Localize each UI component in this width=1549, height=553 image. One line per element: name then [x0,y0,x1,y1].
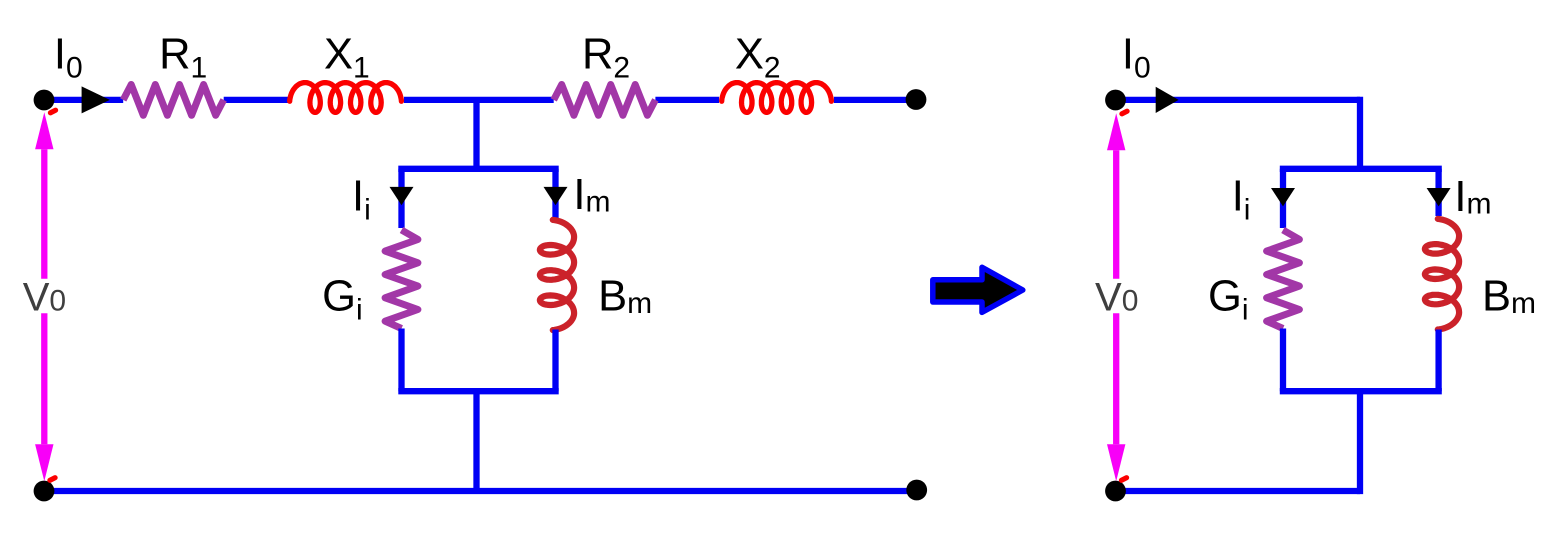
resistor R2 [554,85,656,116]
wire: junction drop [473,100,479,169]
voltage arrow V0 (right) [1113,150,1119,278]
wire: Gi branch bottom (right) [1280,329,1286,392]
node: bottom-right terminal [906,480,927,501]
wire [1116,97,1361,103]
wire: shunt top bar [398,166,558,172]
wire: Gi branch bottom [398,329,404,392]
implication arrow [933,267,1023,312]
wire: Bm branch top [552,169,558,218]
wire: right corner drop [1357,97,1363,169]
wire: shunt bottom bar (right) [1280,388,1442,394]
node: top-right terminal [906,89,927,110]
node: top terminal (right circuit) [1105,90,1126,111]
polarity mark (left bottom) [46,474,58,484]
inductor Bm (left) [540,220,574,330]
current arrow I0 (right) [1156,87,1179,113]
wire: shunt bottom bar [398,388,558,394]
wire: shunt top bar (right) [1280,166,1442,172]
voltage arrow V0 (left) [41,149,47,278]
node: bottom-left terminal [34,481,55,502]
wire [404,97,554,103]
resistor Gi (right) [1267,230,1300,329]
current arrow Im (left) [544,187,568,205]
inductor X2 [722,83,832,113]
polarity mark (left top) [47,107,59,117]
polarity mark (right top) [1118,108,1130,118]
current arrow Ii (right) [1271,188,1295,206]
node: top-left terminal [34,90,55,111]
wire [44,97,123,103]
wire: drop to rail (right) [1357,391,1363,494]
wire: Bm branch bottom [552,330,558,392]
inductor Bm (right) [1425,219,1459,330]
wire [224,97,288,103]
resistor R1 [123,85,224,116]
wire: Gi branch top (right) [1280,169,1286,228]
current arrow I0 (left) [82,86,110,113]
polarity mark (right bottom) [1118,474,1130,484]
inductor X1 [290,83,402,113]
wire: bottom rail (left circuit) [44,488,916,494]
wire [834,97,916,103]
resistor Gi (left) [385,230,418,329]
wire: Gi branch top [398,169,404,228]
node: bottom terminal (right circuit) [1105,481,1126,502]
wire [655,97,719,103]
wire: Bm branch bottom (right) [1435,330,1441,392]
wire: Bm branch top (right) [1435,169,1441,216]
wire: shunt drop to rail [473,391,479,491]
wire: bottom rail (right circuit) [1116,488,1361,494]
current arrow Ii (left) [390,187,414,205]
current arrow Im (right) [1427,188,1451,206]
